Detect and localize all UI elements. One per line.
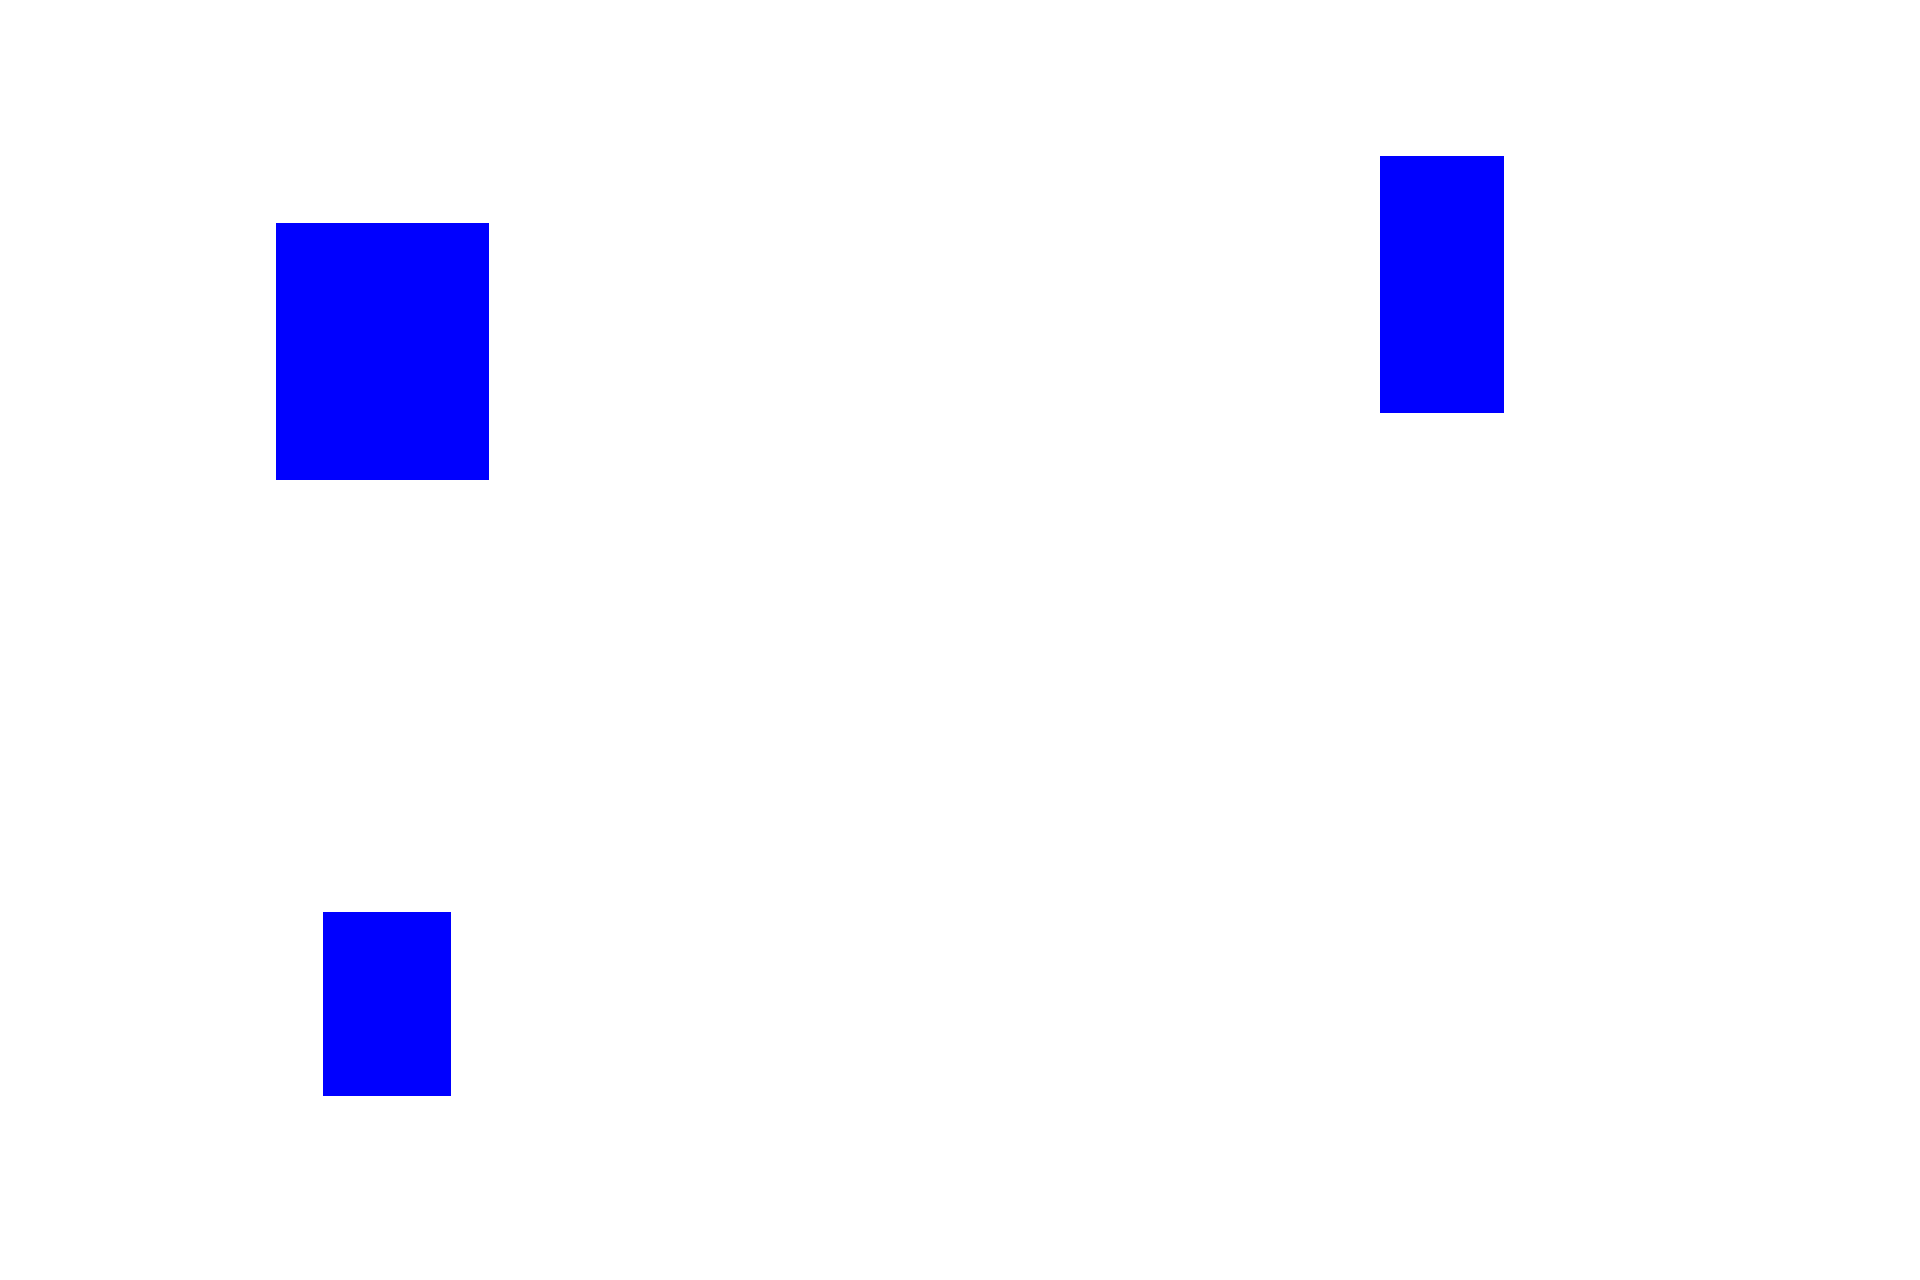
blue rectangle 1 (upper left) <box>276 223 489 480</box>
blue rectangle 2 (upper right) <box>1380 156 1504 413</box>
blue rectangle 3 (lower left) <box>323 912 451 1096</box>
